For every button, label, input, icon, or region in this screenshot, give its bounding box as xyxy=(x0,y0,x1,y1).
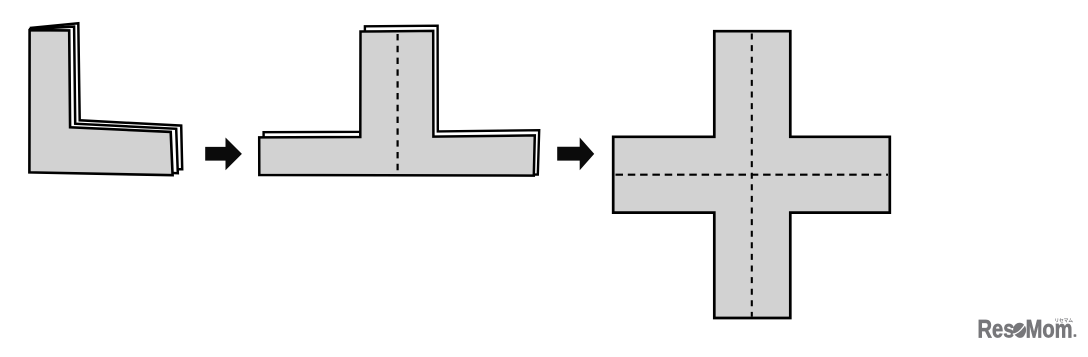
arrow 1 xyxy=(205,138,242,171)
ReseMom logo period xyxy=(1074,334,1077,337)
step 1 folded L-shape paper: front face xyxy=(29,30,172,175)
step 3 cross: vertical fold dashed line xyxy=(751,34,753,317)
arrow 2 xyxy=(557,138,594,171)
step 3 cross: horizontal fold dashed line xyxy=(616,174,889,176)
step 3 unfolded cross-shape paper xyxy=(613,31,890,318)
step 2 T-shape paper: front face xyxy=(259,31,535,176)
step 2 T-shape paper: back layer xyxy=(264,26,540,175)
ReseMom logo stylized e blob xyxy=(1013,323,1026,337)
step 2 T-shape: vertical fold dashed line xyxy=(397,34,399,174)
step 1 folded L-shape paper: back layer 2 xyxy=(31,23,182,169)
step 1 folded L-shape paper: back layer 1 xyxy=(30,27,177,174)
